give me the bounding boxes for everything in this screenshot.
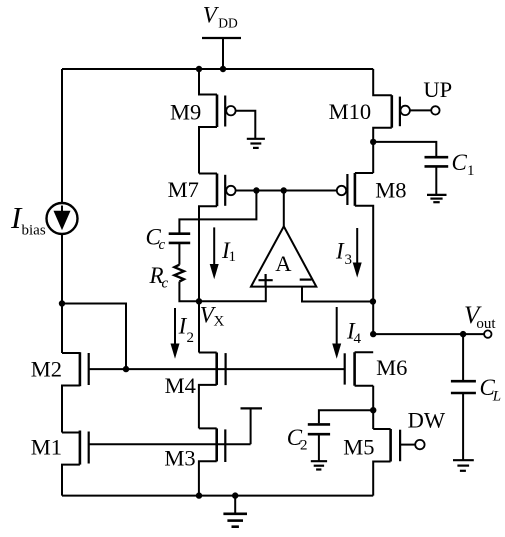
wire Rc to Vx row bbox=[179, 282, 199, 302]
junction dot CL tap bbox=[460, 331, 466, 337]
svg-text:bias: bias bbox=[22, 223, 46, 239]
ground (C2) bbox=[311, 461, 327, 469]
wire gate line M7-M8 bbox=[236, 190, 337, 192]
I4 label bbox=[346, 319, 362, 348]
arrow I1 bbox=[210, 227, 219, 279]
svg-text:2: 2 bbox=[300, 438, 308, 454]
svg-text:M7: M7 bbox=[168, 177, 199, 202]
C2 label bbox=[287, 425, 308, 454]
wire C2 bbox=[319, 410, 373, 423]
CL label bbox=[480, 375, 502, 404]
wire Vout bbox=[373, 333, 484, 335]
transistor M8 bbox=[337, 173, 373, 334]
ground (M9 gate) bbox=[247, 139, 265, 148]
wire M5 gate to DW terminal bbox=[400, 444, 415, 446]
wire gate row M2-M4-M6 bbox=[89, 368, 345, 370]
transistor M9 bbox=[199, 69, 236, 174]
svg-text:3: 3 bbox=[345, 252, 353, 268]
svg-text:I: I bbox=[335, 239, 345, 264]
svg-text:M3: M3 bbox=[164, 446, 195, 471]
svg-text:X: X bbox=[214, 314, 225, 330]
junction dot M10-C1 bbox=[370, 139, 376, 145]
junction dot Vout tap bbox=[370, 331, 376, 337]
svg-text:M9: M9 bbox=[170, 99, 201, 124]
junction dot rail-M9 bbox=[196, 66, 202, 72]
node Vx junction dot bbox=[196, 298, 202, 304]
bias T bar at M3 gate bbox=[241, 408, 263, 444]
terminal UP circle bbox=[431, 106, 439, 114]
capacitor CL bbox=[451, 381, 476, 393]
svg-text:c: c bbox=[159, 237, 166, 253]
C1 label bbox=[452, 150, 475, 179]
wire Vx to M4 bbox=[198, 301, 200, 352]
ground (C1) bbox=[427, 195, 447, 202]
svg-text:M4: M4 bbox=[165, 373, 196, 398]
wire gate row M1-M3 bbox=[89, 443, 251, 445]
wire left tap to gate row bbox=[62, 304, 126, 370]
terminal Vout circle bbox=[484, 330, 491, 337]
resistor Rc bbox=[174, 265, 184, 282]
wire M6 to M5 spine bbox=[372, 386, 374, 429]
wire gate tap to Cc bbox=[179, 191, 256, 233]
junction dot C2 tap bbox=[370, 407, 376, 413]
svg-text:1: 1 bbox=[467, 163, 475, 179]
wire bottom rail bbox=[62, 495, 373, 497]
transistor M4 bbox=[199, 353, 226, 429]
op-amp A bbox=[251, 191, 316, 287]
arrow I3 bbox=[353, 228, 362, 278]
wire M10 gate to UP terminal bbox=[410, 109, 431, 111]
svg-text:V: V bbox=[203, 3, 220, 28]
arrow I4 bbox=[332, 307, 341, 359]
power VDD symbol bbox=[202, 38, 241, 69]
ground (bottom rail) bbox=[223, 496, 247, 527]
transistor M1 bbox=[62, 431, 89, 496]
ground (CL) bbox=[453, 460, 474, 471]
transistor M3 bbox=[199, 428, 225, 495]
svg-text:DD: DD bbox=[218, 16, 238, 31]
Ibias label bbox=[10, 200, 46, 238]
I2 label bbox=[178, 314, 194, 347]
wire M9 gate to ground bbox=[236, 111, 256, 138]
current source Ibias bbox=[47, 203, 78, 234]
Vout label bbox=[464, 302, 496, 332]
capacitor Cc bbox=[169, 234, 191, 243]
svg-text:M2: M2 bbox=[31, 356, 62, 381]
I1 label bbox=[221, 238, 236, 265]
wire left vertical upper bbox=[61, 69, 63, 203]
transistor M2 bbox=[62, 352, 89, 432]
svg-text:UP: UP bbox=[423, 77, 452, 102]
wire opamp + input to Vx bbox=[199, 287, 266, 302]
Cc label bbox=[146, 224, 166, 253]
svg-text:M8: M8 bbox=[375, 178, 406, 203]
transistor M6 bbox=[345, 352, 374, 386]
terminal DW circle bbox=[415, 440, 424, 449]
wire to C1 bbox=[373, 142, 436, 156]
Vx label bbox=[200, 303, 225, 330]
svg-text:L: L bbox=[492, 388, 501, 404]
junction dot gate row bbox=[123, 366, 129, 372]
wire top rail bbox=[62, 68, 373, 70]
wire Cc to Rc bbox=[178, 244, 180, 265]
svg-text:2: 2 bbox=[187, 330, 195, 346]
wire C1 to ground bbox=[435, 168, 437, 195]
wire C2 to ground bbox=[318, 435, 320, 460]
wire CL to ground bbox=[462, 394, 464, 460]
transistor M10 bbox=[373, 69, 410, 173]
svg-text:M5: M5 bbox=[343, 435, 374, 460]
svg-text:M1: M1 bbox=[31, 435, 62, 460]
svg-text:c: c bbox=[162, 276, 169, 292]
wire left vertical lower bbox=[61, 234, 63, 353]
arrow I2 bbox=[171, 308, 180, 359]
junction dot gate-opamp bbox=[281, 187, 287, 193]
transistor M7 bbox=[199, 174, 236, 302]
svg-text:DW: DW bbox=[408, 407, 446, 432]
svg-text:C: C bbox=[452, 150, 468, 175]
capacitor C2 bbox=[308, 424, 330, 434]
junction dot rail-ground bbox=[232, 492, 238, 498]
svg-text:M10: M10 bbox=[329, 99, 372, 124]
svg-text:A: A bbox=[275, 251, 292, 276]
wire CL top bbox=[462, 334, 464, 380]
capacitor C1 bbox=[425, 157, 449, 166]
wire opamp - input to right spine bbox=[302, 287, 373, 302]
junction dot gate-Cc bbox=[253, 187, 259, 193]
junction dot -input bbox=[370, 298, 376, 304]
junction dot rail-M3 bbox=[196, 492, 202, 498]
transistor M5 bbox=[373, 429, 400, 496]
node A: junction dot VDD-rail bbox=[220, 66, 226, 72]
svg-text:4: 4 bbox=[354, 331, 362, 347]
junction dot left tap bbox=[59, 300, 65, 306]
svg-text:out: out bbox=[476, 316, 496, 332]
svg-text:M6: M6 bbox=[376, 355, 407, 380]
Rc label bbox=[149, 263, 169, 292]
svg-text:1: 1 bbox=[229, 249, 237, 265]
I3 label bbox=[335, 239, 352, 269]
